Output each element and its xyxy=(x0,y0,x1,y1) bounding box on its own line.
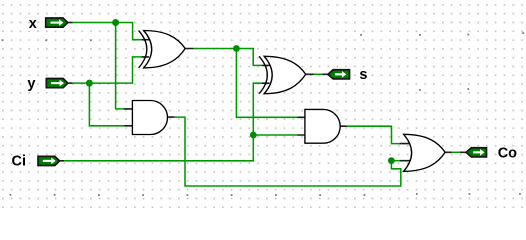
junction node on y net xyxy=(86,80,93,87)
svg-text:x: x xyxy=(29,16,37,32)
input pin Ci xyxy=(38,156,64,165)
XOR gate U1 (x^y) xyxy=(139,31,194,68)
svg-text:Ci: Ci xyxy=(12,153,27,169)
output pin s xyxy=(328,70,350,79)
junction node at OR bottom input xyxy=(388,157,395,164)
wire AND1 output to OR bottom input junction (net x&y) xyxy=(174,117,401,186)
wire OR output to Co pin (net Co) xyxy=(451,151,460,153)
OR gate U5 (Co) xyxy=(400,134,467,171)
XOR gate U2 (s = x^y^Ci) xyxy=(259,56,328,93)
wire x pin to XOR1 top input (net x) xyxy=(72,23,142,40)
junction node on x net xyxy=(112,19,119,26)
wire XOR2 output to s pin (net s) xyxy=(313,73,322,75)
wire OR bottom input junction to OR gate (net x&y) xyxy=(391,160,400,162)
svg-text:y: y xyxy=(27,76,35,92)
junction node on x^y net xyxy=(233,45,240,52)
svg-text:s: s xyxy=(359,67,367,83)
wire Ci pin up to XOR2 bottom input (net Ci) xyxy=(64,83,262,161)
wire y pin to XOR1 bottom input (net y) xyxy=(72,57,142,83)
input pin y xyxy=(46,79,72,88)
wire XOR1 output junction down to AND2 top input (net x^y) xyxy=(236,49,297,118)
wire XOR1 output to XOR2 top input (net x^y) xyxy=(193,49,262,66)
wire x junction down to AND1 top input (net x) xyxy=(116,23,125,109)
wire Ci junction to AND2 bottom input (net Ci) xyxy=(253,134,297,136)
input pin x xyxy=(46,18,73,27)
wire y junction down to AND1 bottom input (net y) xyxy=(89,83,124,126)
junction node on Ci net xyxy=(250,132,257,139)
wire AND2 output to OR top input (net (x^y)&Ci) xyxy=(346,126,400,143)
output pin Co xyxy=(466,148,486,157)
AND gate U3 (x&y) xyxy=(124,101,174,135)
major grid dots xyxy=(2,32,525,196)
svg-text:Co: Co xyxy=(498,146,517,162)
AND gate U4 ((x^y)&Ci) xyxy=(298,109,347,143)
